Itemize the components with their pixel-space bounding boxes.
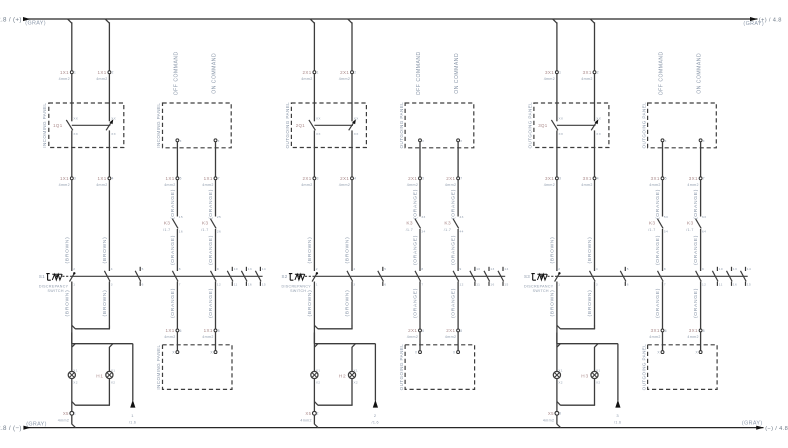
wire lamp 2 drop — [595, 344, 599, 372]
svg-text:OUTGOING PANEL: OUTGOING PANEL — [641, 102, 646, 149]
panel box INCOMING PANEL (command) — [156, 103, 231, 148]
svg-text:XX: XX — [111, 132, 116, 136]
source arrow 2.8/(+) — [0, 16, 31, 23]
svg-text:4mm2: 4mm2 — [544, 77, 555, 81]
svg-text:1X1: 1X1 — [98, 70, 107, 75]
svg-text:X2: X2 — [596, 381, 600, 385]
terminal X (on command) — [699, 139, 705, 143]
wire lamp returns — [557, 378, 595, 411]
switch S1 contact 1-2 — [70, 267, 76, 286]
svg-text:8: 8 — [460, 329, 462, 333]
switch S1 contact 6-5 — [135, 267, 143, 287]
svg-text:(BROWN): (BROWN) — [587, 237, 593, 264]
svg-text:5: 5 — [627, 267, 629, 271]
svg-text:1: 1 — [131, 413, 134, 418]
svg-text:SWITCH: SWITCH — [290, 289, 306, 293]
svg-text:(ORANGE): (ORANGE) — [655, 235, 661, 265]
svg-text:1X1: 1X1 — [60, 176, 69, 181]
svg-text:2X1: 2X1 — [340, 176, 349, 181]
svg-text:X2: X2 — [354, 381, 358, 385]
wire (BROWN) pole 1 — [64, 180, 71, 271]
svg-text:15: 15 — [504, 282, 508, 286]
switch S1 linkage — [62, 275, 262, 277]
svg-text:4mm2: 4mm2 — [581, 183, 592, 187]
svg-text:(ORANGE): (ORANGE) — [655, 288, 661, 318]
svg-text:/1.7: /1.7 — [201, 228, 208, 232]
svg-text:(BROWN): (BROWN) — [550, 237, 556, 264]
svg-text:6: 6 — [180, 329, 182, 333]
terminal 2X1:3 4mm2 — [301, 176, 319, 187]
wire lamp 1 — [556, 333, 558, 372]
svg-text:(GRAY): (GRAY) — [25, 21, 46, 27]
wire (ORANGE) off cmd lower — [655, 282, 662, 329]
wire lamp 1 — [313, 333, 315, 372]
terminal X (off command) — [419, 139, 425, 143]
junction node lamp feed — [314, 344, 375, 348]
terminal 2X1:7 4mm2 — [445, 176, 463, 187]
svg-text:/1.7: /1.7 — [163, 228, 170, 232]
terminal 2X1:8 4mm2 — [445, 328, 463, 339]
wire to (-) bus — [557, 415, 561, 427]
svg-text:(ORANGE): (ORANGE) — [208, 235, 214, 265]
wire (ORANGE) on cmd upper — [693, 180, 700, 219]
svg-text:2X1: 2X1 — [303, 70, 312, 75]
svg-text:3X1: 3X1 — [689, 328, 698, 333]
breaker 1Q1 aux contact pole 1 — [53, 116, 78, 136]
junction node lamp feed — [72, 344, 133, 348]
svg-text:15: 15 — [747, 282, 751, 286]
terminal 1X1:3 4mm2 — [59, 176, 77, 187]
svg-text:3X1: 3X1 — [583, 70, 592, 75]
svg-text:XX: XX — [111, 116, 116, 120]
svg-text:2: 2 — [73, 267, 75, 271]
svg-text:1: 1 — [74, 71, 76, 75]
svg-text:3X1: 3X1 — [545, 176, 554, 181]
svg-text:ON COMMAND: ON COMMAND — [697, 53, 703, 94]
svg-text:4mm2: 4mm2 — [544, 183, 555, 187]
svg-text:(ORANGE): (ORANGE) — [413, 189, 419, 219]
svg-text:4: 4 — [353, 267, 355, 271]
terminal X (bottom off) — [657, 351, 664, 355]
svg-text:(ORANGE): (ORANGE) — [208, 189, 214, 219]
wire (BROWN) pole 1 lower — [307, 282, 314, 344]
svg-text:K3: K3 — [649, 221, 656, 227]
svg-text:(ORANGE): (ORANGE) — [451, 288, 457, 318]
svg-text:1X1: 1X1 — [60, 70, 69, 75]
switch S3 contact 6-5 — [620, 267, 628, 287]
svg-text:(ORANGE): (ORANGE) — [413, 288, 419, 318]
svg-text:(−) / 4.8: (−) / 4.8 — [765, 426, 788, 432]
svg-text:2: 2 — [112, 71, 114, 75]
svg-text:1: 1 — [74, 412, 76, 416]
svg-text:4mm2: 4mm2 — [164, 183, 175, 187]
svg-text:5: 5 — [142, 267, 144, 271]
wire (BROWN) pole 1 lower — [550, 282, 557, 344]
label (GRAY) top right — [743, 21, 764, 27]
wire lamp 2 drop — [352, 344, 356, 372]
svg-text:x: x — [218, 139, 220, 143]
terminal X (off command) — [661, 139, 667, 143]
svg-text:1: 1 — [73, 282, 75, 286]
wire (ORANGE) on cmd mid — [451, 229, 458, 271]
svg-text:4: 4 — [596, 267, 598, 271]
svg-text:4mm2: 4mm2 — [301, 77, 312, 81]
wire (BROWN) pole 1 — [307, 180, 314, 271]
svg-text:OUTGOING PANEL: OUTGOING PANEL — [641, 344, 646, 391]
label (GRAY) top left — [25, 21, 46, 27]
svg-text:(ORANGE): (ORANGE) — [693, 189, 699, 219]
terminal 1X1:8 4mm2 — [202, 328, 220, 339]
switch S1 contact 16-13 — [241, 267, 252, 287]
svg-text:3X1: 3X1 — [583, 176, 592, 181]
lamp H3 (right element) — [581, 368, 600, 384]
junction node lamp feed — [557, 344, 618, 348]
svg-text:6: 6 — [422, 329, 424, 333]
wire — [177, 142, 215, 177]
svg-text:4mm2: 4mm2 — [445, 335, 456, 339]
svg-text:(ORANGE): (ORANGE) — [208, 288, 214, 318]
svg-text:3: 3 — [616, 413, 619, 418]
svg-text:7: 7 — [703, 177, 705, 181]
svg-text:(ORANGE): (ORANGE) — [170, 189, 176, 219]
label ON COMMAND — [212, 53, 218, 94]
svg-text:9: 9 — [702, 267, 704, 271]
switch S3 contact 12-9 — [696, 267, 707, 286]
switch S2 manual handle — [282, 274, 305, 281]
terminal 1X1:4 4mm2 — [96, 176, 114, 187]
wire (ORANGE) off cmd mid — [170, 229, 177, 271]
breaker 3Q1 aux contact pole 2 with arrow — [591, 116, 601, 136]
svg-text:7: 7 — [460, 177, 462, 181]
svg-text:7: 7 — [218, 177, 220, 181]
svg-text:/1.7: /1.7 — [686, 228, 693, 232]
switch S2 contact 6-5 — [378, 267, 386, 287]
svg-text:1: 1 — [559, 71, 561, 75]
terminal 3X1:1 4mm2 — [544, 70, 562, 81]
terminal 1X1:1 4mm2 — [59, 70, 77, 81]
svg-text:(BROWN): (BROWN) — [345, 237, 351, 264]
svg-text:X1: X1 — [73, 368, 77, 372]
svg-text:OFF COMMAND: OFF COMMAND — [659, 51, 665, 95]
svg-text:2X1: 2X1 — [408, 328, 417, 333]
switch S3 contact 16-13 — [727, 267, 738, 287]
svg-text:4mm2: 4mm2 — [339, 183, 350, 187]
switch S2 contact 16-13 — [484, 267, 495, 287]
wire (ORANGE) off cmd upper — [170, 180, 177, 219]
label OFF COMMAND — [659, 51, 665, 95]
lamp H2 (left element) — [311, 368, 321, 384]
svg-text:2: 2 — [317, 412, 319, 416]
wire — [557, 130, 595, 176]
off-page connector 3 /1.6 — [614, 344, 621, 425]
wire (ORANGE) on cmd lower — [451, 282, 458, 329]
svg-text:4mm2: 4mm2 — [300, 418, 311, 422]
svg-text:2Q1: 2Q1 — [296, 123, 306, 128]
svg-text:2: 2 — [354, 71, 356, 75]
svg-text:4mm2: 4mm2 — [543, 418, 554, 422]
switch S3 manual handle — [524, 274, 547, 281]
wire — [314, 74, 352, 122]
svg-text:9: 9 — [217, 267, 219, 271]
svg-text:X1: X1 — [354, 368, 358, 372]
switch S2 contact 1-2 — [312, 267, 318, 286]
svg-text:XX: XX — [354, 132, 359, 136]
terminal 3X1:2 4mm2 — [581, 70, 599, 81]
svg-text:/1.6: /1.6 — [614, 421, 621, 425]
svg-text:3: 3 — [559, 412, 561, 416]
svg-text:XX: XX — [73, 116, 78, 120]
breaker 2Q1 mechanical link — [314, 124, 353, 126]
svg-text:4mm2: 4mm2 — [687, 335, 698, 339]
relay contact K3 63-64 — [686, 215, 706, 233]
svg-text:15: 15 — [262, 282, 266, 286]
svg-text:X2: X2 — [111, 381, 115, 385]
svg-text:4mm2: 4mm2 — [59, 183, 70, 187]
label ON COMMAND — [454, 53, 460, 94]
wire (BROWN) pole 2 lower — [587, 282, 594, 326]
svg-text:4: 4 — [354, 177, 356, 181]
svg-text:/1.6: /1.6 — [371, 421, 378, 425]
svg-text:12: 12 — [702, 282, 706, 286]
svg-text:4mm2: 4mm2 — [407, 335, 418, 339]
terminal 2X1:1 4mm2 — [301, 70, 319, 81]
terminal 3X1:8 4mm2 — [687, 328, 705, 339]
terminal 3X1:3 4mm2 — [544, 176, 562, 187]
wire (ORANGE) off cmd mid — [413, 229, 420, 271]
lamp H1 (left element) — [68, 368, 78, 384]
relay contact K3 33-34 — [406, 215, 426, 233]
svg-text:63: 63 — [702, 215, 706, 219]
source arrow 2.8/(-) — [0, 425, 31, 432]
svg-text:(ORANGE): (ORANGE) — [170, 288, 176, 318]
svg-text:H2: H2 — [339, 373, 347, 378]
terminal X5:2 4mm2 — [300, 411, 318, 422]
lamp H1 (right element) — [96, 368, 115, 384]
svg-text:X1: X1 — [111, 368, 115, 372]
svg-text:INCOMING PANEL: INCOMING PANEL — [156, 345, 161, 390]
svg-text:4mm2: 4mm2 — [445, 183, 456, 187]
svg-text:3X1: 3X1 — [651, 328, 660, 333]
svg-text:12: 12 — [460, 282, 464, 286]
wire (ORANGE) off cmd upper — [413, 180, 420, 219]
svg-text:16: 16 — [179, 229, 183, 233]
terminal X (on command) — [457, 139, 463, 143]
wire lamp 1 — [71, 333, 73, 372]
terminal 2X1:5 4mm2 — [407, 176, 425, 187]
switch S1 contact 12-9 — [211, 267, 222, 286]
svg-text:S2: S2 — [282, 274, 288, 279]
svg-text:(GRAY): (GRAY) — [743, 21, 764, 27]
svg-text:X1: X1 — [316, 368, 320, 372]
switch S2 contact 11-10 — [470, 267, 481, 287]
svg-text:3: 3 — [559, 177, 561, 181]
terminal X5:3 4mm2 — [543, 411, 561, 422]
svg-text:X1: X1 — [558, 368, 562, 372]
wire 3X1:2 drop from (+) bus — [590, 19, 594, 71]
svg-text:13: 13 — [733, 267, 737, 271]
svg-text:S3: S3 — [524, 274, 530, 279]
svg-text:11: 11 — [719, 282, 723, 286]
svg-text:H1: H1 — [96, 373, 104, 378]
svg-text:1: 1 — [317, 71, 319, 75]
label (GRAY) bottom left — [26, 421, 47, 427]
terminal 2X1:6 4mm2 — [407, 328, 425, 339]
svg-text:54: 54 — [664, 229, 668, 233]
relay contact K3 53-54 — [648, 215, 668, 233]
svg-text:(ORANGE): (ORANGE) — [170, 235, 176, 265]
svg-text:4mm2: 4mm2 — [581, 77, 592, 81]
svg-text:10: 10 — [476, 267, 480, 271]
panel box OUTGOING PANEL (bottom) — [641, 344, 717, 391]
wire (ORANGE) on cmd lower — [208, 282, 215, 329]
wire lamp returns — [314, 378, 352, 411]
wire (ORANGE) on cmd lower — [693, 282, 700, 329]
svg-text:6: 6 — [627, 282, 629, 286]
svg-text:K3: K3 — [164, 221, 171, 227]
wire — [663, 142, 701, 177]
svg-text:6: 6 — [384, 282, 386, 286]
wire — [314, 130, 352, 176]
svg-text:X1: X1 — [596, 368, 600, 372]
svg-text:10: 10 — [719, 267, 723, 271]
svg-text:(GRAY): (GRAY) — [742, 420, 763, 426]
relay contact K3 15-16 — [163, 215, 183, 233]
svg-text:13: 13 — [490, 267, 494, 271]
svg-text:5: 5 — [384, 267, 386, 271]
svg-text:DISCREPANCY: DISCREPANCY — [282, 284, 312, 288]
svg-text:ON COMMAND: ON COMMAND — [212, 53, 218, 94]
label DISCREPANCY SWITCH — [39, 284, 69, 293]
svg-text:1X1: 1X1 — [166, 176, 175, 181]
svg-text:3: 3 — [317, 177, 319, 181]
svg-text:XX: XX — [596, 132, 601, 136]
svg-text:25: 25 — [217, 215, 221, 219]
svg-text:K3: K3 — [406, 221, 413, 227]
terminal X (bottom on) — [210, 351, 217, 355]
svg-text:XX: XX — [316, 132, 321, 136]
wire 1X1:1 drop from (+) bus — [68, 19, 72, 71]
svg-text:5: 5 — [665, 177, 667, 181]
svg-text:2.8 / (−): 2.8 / (−) — [0, 425, 22, 432]
switch S3 contact 1-2 — [555, 267, 561, 286]
switch S3 contact 11-10 — [712, 267, 723, 287]
panel box OUTGOING PANEL (command) — [641, 102, 716, 149]
svg-text:2: 2 — [374, 413, 377, 418]
svg-text:INCOMING PANEL: INCOMING PANEL — [42, 103, 47, 148]
svg-text:XX: XX — [73, 132, 78, 136]
terminal 1X1:7 4mm2 — [202, 176, 220, 187]
wire (BROWN) pole 1 lower — [64, 282, 71, 344]
svg-text:(GRAY): (GRAY) — [26, 421, 47, 427]
svg-text:4mm2: 4mm2 — [339, 77, 350, 81]
svg-text:OUTGOING PANEL: OUTGOING PANEL — [285, 102, 290, 149]
svg-text:INCOMING PANEL: INCOMING PANEL — [156, 103, 161, 148]
svg-text:2: 2 — [558, 267, 560, 271]
wire — [72, 74, 110, 122]
terminal 3X1:5 4mm2 — [649, 176, 667, 187]
svg-text:26: 26 — [217, 229, 221, 233]
svg-text:4mm2: 4mm2 — [96, 183, 107, 187]
svg-text:16: 16 — [733, 282, 737, 286]
terminal 1X1:5 4mm2 — [164, 176, 182, 187]
off-page connector 1 /1.6 — [129, 344, 136, 425]
panel box OUTGOING PANEL (command) — [399, 102, 474, 149]
breaker 1Q1 aux contact pole 2 with arrow — [106, 116, 116, 136]
svg-text:7: 7 — [421, 282, 423, 286]
terminal 3X1:6 4mm2 — [649, 328, 667, 339]
svg-text:2.8 / (+): 2.8 / (+) — [0, 16, 22, 23]
wire (BROWN) pole 1 — [550, 180, 557, 271]
label ON COMMAND — [697, 53, 703, 94]
svg-text:7: 7 — [664, 282, 666, 286]
wire (BROWN) pole 2 — [102, 180, 109, 271]
svg-text:DISCREPANCY: DISCREPANCY — [524, 284, 554, 288]
svg-text:SWITCH: SWITCH — [48, 289, 64, 293]
svg-text:(ORANGE): (ORANGE) — [413, 235, 419, 265]
switch S2 contact 15-14 — [498, 267, 509, 287]
svg-text:(BROWN): (BROWN) — [550, 290, 556, 317]
wire (ORANGE) off cmd mid — [655, 229, 662, 271]
svg-text:1X1: 1X1 — [98, 176, 107, 181]
wire lamp returns — [72, 378, 110, 411]
svg-text:4mm2: 4mm2 — [59, 77, 70, 81]
svg-text:(ORANGE): (ORANGE) — [451, 189, 457, 219]
svg-text:7: 7 — [179, 282, 181, 286]
svg-text:16: 16 — [490, 282, 494, 286]
svg-text:(BROWN): (BROWN) — [587, 290, 593, 317]
breaker 3Q1 mechanical link — [557, 124, 596, 126]
label (GRAY) bottom right — [742, 420, 763, 426]
wire (ORANGE) off cmd lower — [170, 282, 177, 329]
svg-text:14: 14 — [747, 267, 751, 271]
svg-text:1X1: 1X1 — [204, 328, 213, 333]
svg-text:(BROWN): (BROWN) — [64, 290, 70, 317]
svg-text:x: x — [460, 139, 462, 143]
svg-text:8: 8 — [421, 267, 423, 271]
svg-text:64: 64 — [702, 229, 706, 233]
svg-text:1X1: 1X1 — [204, 176, 213, 181]
label OFF COMMAND — [416, 51, 422, 95]
wire (BROWN) pole 2 — [587, 180, 594, 271]
junction elbow pole2 to pole1 — [557, 325, 595, 329]
svg-text:4mm2: 4mm2 — [649, 335, 660, 339]
switch S3 contact 15-14 — [741, 267, 752, 287]
svg-text:X5: X5 — [63, 411, 69, 416]
svg-text:3: 3 — [596, 282, 598, 286]
svg-text:16: 16 — [248, 282, 252, 286]
svg-text:6: 6 — [142, 282, 144, 286]
svg-text:15: 15 — [179, 215, 183, 219]
svg-text:3: 3 — [353, 282, 355, 286]
switch S3 contact 7-8 — [658, 267, 666, 286]
panel box INCOMING PANEL (bottom) — [156, 345, 232, 390]
off-page connector 2 /1.6 — [371, 344, 378, 425]
switch S1 contact 7-8 — [172, 267, 180, 286]
destination arrow (+)/4.8 — [750, 17, 782, 23]
svg-text:12: 12 — [217, 282, 221, 286]
svg-text:K3: K3 — [444, 221, 451, 227]
wire lamp 2 drop — [109, 344, 113, 372]
terminal X (bottom on) — [453, 351, 460, 355]
svg-text:S1: S1 — [39, 274, 45, 279]
svg-text:5: 5 — [422, 177, 424, 181]
svg-text:13: 13 — [248, 267, 252, 271]
panel box OUTGOING PANEL (breaker) — [285, 102, 367, 149]
svg-text:XX: XX — [559, 132, 564, 136]
wire (ORANGE) on cmd mid — [693, 229, 700, 271]
svg-text:2: 2 — [597, 71, 599, 75]
svg-text:/1.7: /1.7 — [444, 228, 451, 232]
